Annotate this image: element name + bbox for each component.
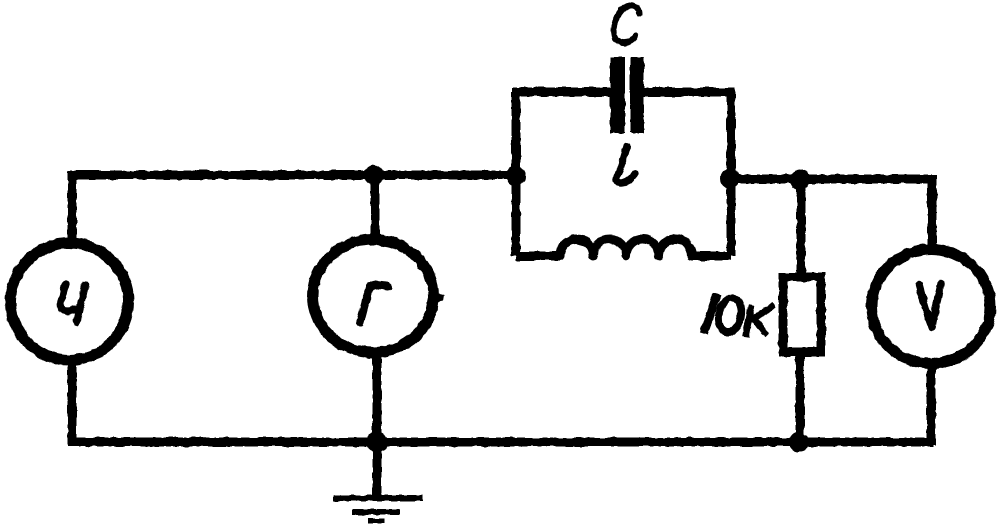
node junction above generator <box>364 165 384 185</box>
voltmeter V letter <box>919 284 941 327</box>
resistor 10k body <box>783 277 821 352</box>
node junction above resistor <box>790 170 810 190</box>
wire resistor top lead <box>797 179 806 277</box>
wire top-right horizontal <box>730 175 932 184</box>
ground bar 2 <box>352 509 400 515</box>
frequency meter circle <box>11 243 129 360</box>
resistor value label 10k <box>705 296 771 335</box>
wire right corner down to voltmeter <box>928 175 937 246</box>
generator circle <box>313 240 434 353</box>
inductor L label <box>616 146 635 183</box>
wire tank right side <box>727 92 736 256</box>
generator pointer tick <box>434 293 444 303</box>
node junction tank left <box>506 166 526 186</box>
ground bar 3 <box>368 518 384 523</box>
inductor L with tank bottom wire <box>516 239 731 256</box>
wire frequency meter bottom lead <box>68 360 77 445</box>
node junction tank right <box>720 169 740 189</box>
node junction bottom generator <box>367 432 388 453</box>
wire tank top right <box>642 88 735 97</box>
wire voltmeter bottom lead <box>927 366 936 445</box>
wire drop to generator <box>371 175 380 238</box>
ground bar 1 <box>333 495 423 501</box>
wire generator bottom lead <box>373 355 382 445</box>
capacitor C value label <box>614 5 639 42</box>
wire drop to frequency meter <box>68 171 77 240</box>
generator letter G <box>360 285 388 323</box>
wire top-left horizontal <box>68 171 516 180</box>
voltmeter V circle <box>872 250 991 364</box>
capacitor C plates <box>610 57 644 133</box>
frequency meter letter Ch <box>61 284 85 322</box>
wire tank top left <box>512 88 612 97</box>
wire resistor bottom lead <box>796 352 805 445</box>
wire tank left side <box>512 92 521 256</box>
ground stem <box>373 441 382 497</box>
wire bottom horizontal <box>68 438 933 447</box>
node junction bottom resistor <box>789 432 809 452</box>
